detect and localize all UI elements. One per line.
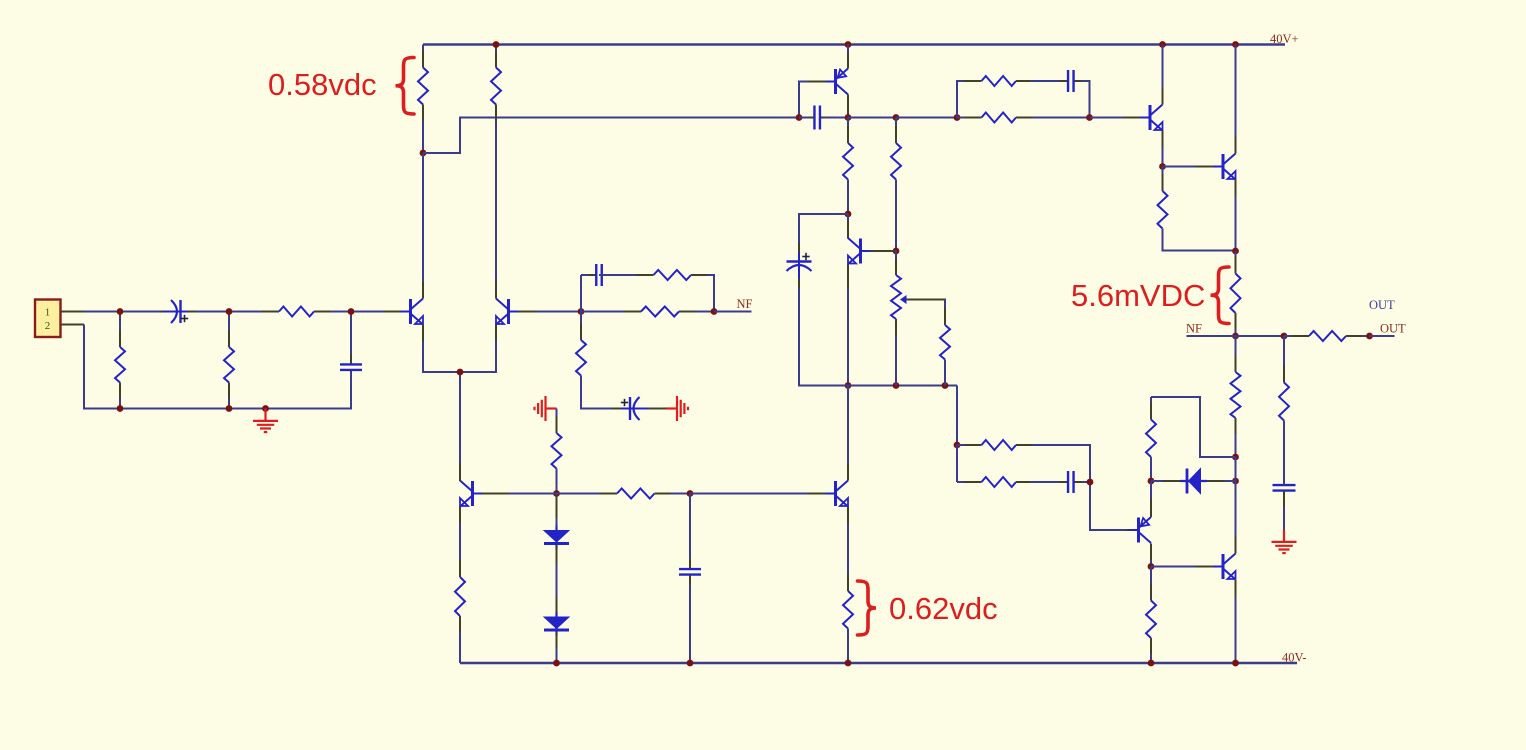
svg-text:0.62vdc: 0.62vdc [889,591,998,626]
resistor R12 [891,118,901,252]
wire Q7 collector [1235,45,1237,154]
pin Q4 base [799,82,836,118]
junction [1232,478,1239,485]
capacitor C8 comp [1030,70,1090,92]
wire Q4 collector [847,95,849,118]
junction [1148,660,1155,667]
ground zobel [1272,530,1297,554]
trimmer RT1 [891,251,907,386]
junction [1148,563,1155,570]
transistor Q2 [496,281,509,342]
wire comp2 top corner [1032,445,1090,482]
pin 1 stub [61,311,85,313]
junction [262,405,269,412]
wire 40V- rail [460,662,1297,664]
wire R13 to rail [944,360,946,386]
wire rail corner to R4 [422,45,424,68]
wire Q9 collector down [1150,560,1152,567]
resistor R10 bias row [557,489,691,499]
resistor R5 diff load right [491,45,501,299]
wire tail [459,372,461,481]
label 0.58vdc [268,67,377,102]
junction [711,308,718,315]
wire R16 corner [1163,229,1236,251]
wire node A to y117 bus [423,118,799,154]
transistor Q11 bottom [836,463,849,524]
pin 2 label [45,320,51,332]
transistor Q5 VAS [848,220,861,288]
wire R21 to node [1150,457,1152,481]
wire RC1 up [957,81,966,118]
resistor R3 input series [229,307,351,317]
transistor Q7 output top [1223,136,1236,197]
junction [1232,333,1239,340]
ground input [253,409,278,433]
wire diff emitters [423,341,496,372]
wire mid rail [799,385,957,387]
wire diode string [556,494,558,664]
junction [117,308,124,315]
capacitor C2 input filter [340,312,362,380]
wire y117 mid [848,117,896,119]
diode D2 [544,611,569,636]
resistor R23 comp2 top [957,440,1048,450]
junction [845,382,852,389]
junction [1159,163,1166,170]
wire vert 457-481 [1235,457,1237,481]
svg-text:40V-: 40V- [1282,651,1307,665]
pin Q7 base [1196,166,1223,168]
wire OUT stub [1370,335,1395,337]
wire Q6 emitter [1162,147,1164,167]
brace 5.6mVDC [1211,267,1230,324]
brace 0.58vdc [396,58,415,115]
wire RT1 wiper [907,300,946,326]
connector J1 [35,300,61,338]
wire C5 top [689,494,691,560]
junction [1232,248,1239,255]
junction [942,382,949,389]
junction FB node [578,308,585,315]
wire bias to Q6 base [690,493,823,495]
wire Q6 collector [1162,45,1164,105]
wire C7 to mid rail [799,288,848,386]
junction [117,405,124,412]
junction [845,660,852,667]
net label OUT red [1380,322,1406,336]
junction [845,114,852,121]
transistor Q3 bias [460,463,473,524]
resistor R24 comp2 bottom [957,477,1058,487]
resistor R8 to bias cap [576,312,586,409]
pin Q2 base [509,311,582,313]
wire Q7 base [1163,166,1211,168]
net label NF left [1186,322,1202,336]
resistor R20 vertical nf [1231,336,1241,457]
wire R4 to node A [422,122,424,154]
wire Q7 emitter [1235,196,1237,251]
junction [1148,478,1155,485]
wire R8 corner [581,376,619,409]
transistor Q6 driver [1150,87,1163,148]
resistor R4 diff load left [418,45,428,154]
wire Q11 emitter [847,523,849,591]
junction [796,114,803,121]
junction [687,660,694,667]
resistor R15 comp bottom [957,113,1090,123]
junction node A [420,150,427,157]
junction [954,114,961,121]
transistor Q10 output bottom [1223,536,1236,598]
junction [845,41,852,48]
wire input top [84,311,399,313]
wire to driver base [1090,117,1139,119]
wire Q11 collector [847,386,849,465]
pin Q9 base [1112,529,1139,531]
wire Q10 emitter [1235,597,1237,663]
junction [553,660,560,667]
net label OUT blue [1369,298,1395,312]
resistor R16 driver emitter [1158,167,1168,251]
capacitor C6 y117 [799,106,848,130]
junction [493,41,500,48]
ground bias right [666,396,688,421]
resistor R14 comp top [957,76,1048,86]
wire input bottom rail [120,370,351,409]
wire Q8 collector up [1235,481,1237,554]
wire gnd to R9 [556,409,558,434]
wire loop box [1151,397,1236,457]
resistor R9 bias top [552,409,562,494]
svg-text:NF: NF [737,297,753,311]
wire pin2 to ground rail [84,325,120,409]
pin Q10 base [1196,566,1223,568]
resistor R11 [843,118,853,215]
junction [1281,333,1288,340]
svg-text:NF: NF [1186,322,1202,336]
resistor R2 input shunt 2 [224,312,234,409]
capacitor C10 comp2 [1030,471,1090,493]
pin 2 stub [61,324,85,326]
wire NF stub [714,311,752,313]
wire Q9 emitter up [1150,481,1152,517]
svg-text:OUT: OUT [1369,298,1395,312]
resistor R6 feedback top [599,270,714,280]
resistor R25 0.62 [843,523,853,663]
capacitor C1 input coupling [160,300,196,323]
junction tail [457,369,464,376]
junction [1232,454,1239,461]
transistor Q4 current source [836,53,849,95]
svg-text:2: 2 [45,320,51,332]
junction [954,442,961,449]
capacitor C3 feedback [581,264,648,286]
pin Q11 base [809,493,836,495]
pin Q5 base [861,250,897,252]
resistor R1 input shunt 1 [115,312,125,409]
power net label 40V- [1282,651,1307,665]
junction [348,308,355,315]
wire C5 bottom [689,585,691,664]
svg-text:OUT: OUT [1380,322,1406,336]
resistor R18 output series [1284,331,1370,341]
wire NF stub left [1187,335,1236,337]
junction [226,308,233,315]
brace 0.62vdc [858,581,877,635]
junction [1087,479,1094,486]
junction [893,248,900,255]
resistor R26 bias emitter [455,523,465,663]
resistor R19 zobel [1279,336,1289,485]
junction [893,114,900,121]
wire Q5 collector [847,214,849,239]
junction [226,405,233,412]
wire C9 to ground [1283,507,1285,530]
wire R9 to bias node [556,469,558,494]
wire R11 to node [847,180,849,215]
junction [1232,41,1239,48]
wire C2 to rail [350,372,352,409]
wire 40V+ rail [423,43,1285,45]
junction [893,382,900,389]
wire FB top branch [581,275,714,312]
ground bias left [535,396,557,421]
capacitor C9 zobel [1273,421,1296,508]
pin 1 label [45,307,51,319]
wire vas cap branch [799,214,848,245]
resistor R13 wiper [940,300,950,386]
wire NF to OUT node [1236,335,1285,337]
svg-text:5.6mVDC: 5.6mVDC [1071,278,1205,313]
wire y117 right [896,117,957,119]
diode D1 [544,525,569,550]
junction [553,490,560,497]
pin Q1 base [384,311,411,313]
junction OUT terminal [1366,333,1373,340]
wire Q10 base row [1151,566,1211,568]
pin Q3 base [473,493,557,495]
wire R12 to node [895,180,897,252]
junction [1159,41,1166,48]
svg-text:40V+: 40V+ [1270,32,1299,46]
svg-text:1: 1 [45,307,51,319]
diode D3 [1151,469,1236,494]
pin Q6 base [1123,117,1150,119]
transistor Q1 [411,281,424,342]
wire RC2 left [956,445,958,482]
resistor R17 output emitter [1231,251,1241,336]
wire Q5 emitter [847,287,849,386]
wire Q1 collector [422,153,424,282]
resistor R7 feedback bottom [581,307,714,317]
label 5.6mVDC [1071,278,1205,313]
capacitor C7 vas electrolytic [787,243,812,290]
junction [1232,660,1239,667]
wire R25 to rail [847,629,849,664]
junction [845,211,852,218]
wire mid rail right corner [956,386,958,446]
capacitor C5 bias [679,559,701,585]
resistor R21 loop [1146,397,1156,481]
junction [687,490,694,497]
svg-text:0.58vdc: 0.58vdc [268,67,377,102]
label 0.62vdc [889,591,998,626]
resistor R22 lower [1146,567,1156,664]
wire R5 to Q2 collector [495,121,497,299]
net label NF [737,297,753,311]
wire base from RC2 [1090,482,1126,530]
power net label 40V+ [1270,32,1299,46]
transistor Q9 predriver [1139,499,1152,561]
capacitor C4 bias electrolytic [612,397,666,420]
junction [1086,114,1093,121]
wire C8 corner [1081,81,1090,118]
wire Q4 emitter [847,45,849,69]
